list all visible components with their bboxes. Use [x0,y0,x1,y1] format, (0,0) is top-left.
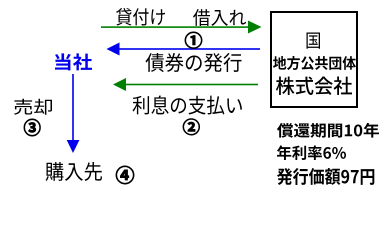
text saiken-no-hakkou (債券の発行 bond issuance label) [146,53,242,72]
text kariire (借入れ borrowing label) [193,9,246,26]
text tousha (当社 our company, blue) [55,53,92,70]
text kashitsuke (貸付け lending label) [116,8,165,26]
text step2 circled ② [183,119,200,135]
text step4 circled ④ [116,166,134,184]
text step3 circled ③ [24,119,40,136]
text chihou-koukyou-dantai (地方公共団体 local public entities) [273,56,356,70]
box: issuer entity box (国/地方公共団体/株式会社) [271,12,357,107]
text kuni (国 nation, in box) [307,33,321,49]
text nenriritsu (年利率6% annual interest rate 6%) [277,145,346,160]
text hakkou-kagaku (発行価額97円 issue price 97 yen) [277,168,374,185]
text kounyuusaki (購入先 purchaser label) [46,162,103,181]
text shoukan-kikan (償還期間10年 redemption period 10 years) [277,123,379,138]
arrowhead: blue left-pointing (bonds issued to 当社) [107,43,120,56]
arrowhead: green right-pointing (loan goes to issuer) [248,21,262,34]
wire: green interest-payment arrow shaft (国 box to 当社, leftward) [125,84,258,86]
wire: blue bond-issue arrow shaft (国 box to 当社, leftward) [119,48,260,50]
text kabushiki-gaisha (株式会社 corporation) [276,77,352,96]
arrowhead: green left-pointing (interest paid to 当社) [113,78,126,91]
arrowhead: blue down-pointing (sold to purchaser) [67,140,80,153]
wire: green lending arrow shaft (当社 to 国 box, rightward) [101,26,249,28]
text risoku-no-shiharai (利息の支払い interest payment label) [133,96,242,115]
text step1 circled ① [185,32,202,49]
text baikyaku (売却 sale label) [14,99,52,115]
wire: blue sale arrow shaft (当社 down to 購入先) [72,74,74,140]
